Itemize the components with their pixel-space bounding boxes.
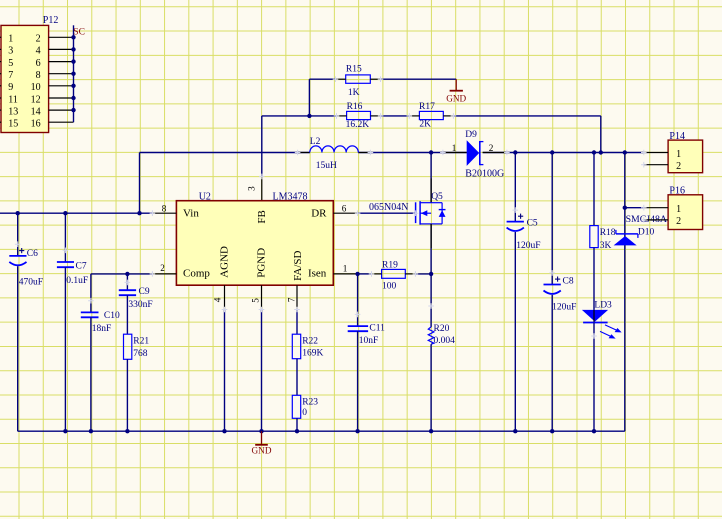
junction rail C5 [513,150,517,154]
pin U2 DR [311,204,357,220]
svg-text:8: 8 [162,204,167,214]
junction rail-C9 [125,429,129,433]
wire drain [430,153,432,203]
resistor R18 [590,226,598,248]
junction riser [137,211,141,215]
svg-text:GND: GND [252,446,272,456]
svg-text:100: 100 [382,281,397,291]
wire P16 pin1 [625,207,644,209]
value 330nF [128,300,152,310]
svg-text:12: 12 [31,94,41,105]
svg-text:C9: C9 [139,287,150,297]
wire C6 bottom [17,266,19,431]
wire FASD down [296,310,298,335]
wire FB column [261,116,263,176]
svg-text:15: 15 [8,119,18,130]
value 065N04N [369,202,408,213]
svg-text:0.1uF: 0.1uF [66,276,88,286]
capacitor C7 [57,262,74,267]
wire R23 bottom [296,418,298,431]
power GND top [446,79,466,103]
svg-text:R19: R19 [382,260,398,270]
junction C6 top [16,211,20,215]
junction rail-AGND [222,429,226,433]
label C5 [527,219,538,229]
wire D10 top [624,153,626,208]
svg-text:3: 3 [247,186,257,191]
wire C5 top [514,153,516,222]
wire C10 col top [90,274,92,313]
svg-text:13: 13 [8,106,18,117]
wire C5 bottom [514,232,516,431]
connector P12 [0,25,74,132]
label R22 [302,337,318,347]
svg-text:16.2K: 16.2K [346,120,370,130]
svg-text:18nF: 18nF [92,324,112,334]
pin number 7 [286,297,296,302]
svg-text:AGND: AGND [218,246,230,278]
hotspot crosses [15,76,647,338]
junction rail-C5 [513,429,517,433]
label LD3 [594,301,612,311]
wire PGND down [261,310,263,432]
value 0.004 [434,336,456,346]
value B20100G [465,168,504,179]
label D10 [638,228,655,238]
wire R22-R23 [296,359,298,396]
wire LD3 bottom [593,323,595,432]
svg-text:Comp: Comp [183,268,210,280]
wire L2 to D9 [358,152,467,154]
junction P12 pin6 [71,59,75,63]
junction Comp-C9 [125,272,129,276]
svg-text:2: 2 [676,216,681,227]
label R17 [419,102,435,112]
junction P12 pin14 [71,108,75,112]
wire R15 riser [308,79,310,116]
junction rail-LD3 [592,429,596,433]
designator U2 [199,192,211,203]
svg-text:C7: C7 [76,262,87,272]
svg-text:D10: D10 [638,228,655,238]
resistor R19 [372,269,416,278]
label C9 [139,287,150,297]
value 470uF [19,278,43,288]
svg-text:LM3478: LM3478 [273,192,308,203]
svg-text:330nF: 330nF [128,300,152,310]
svg-text:R17: R17 [419,102,435,112]
capacitor C6 [9,248,26,265]
svg-text:10: 10 [31,82,41,93]
wire rail to L2 [140,152,310,154]
wire R20 bottom [430,344,432,431]
svg-text:7: 7 [286,297,296,302]
value 2K [419,119,431,129]
connector P14 [644,140,703,173]
junction rail-C7 [63,429,67,433]
label R23 [302,398,318,408]
wire R16-R17 [381,115,410,117]
resistor R17 [409,111,453,119]
pin U2 FB [261,176,263,200]
designator P16 [669,185,685,196]
label C6 [27,249,38,259]
svg-text:R18: R18 [600,228,616,238]
svg-text:2: 2 [36,34,41,45]
svg-text:2: 2 [676,161,681,172]
pin U2 Isen [308,264,358,280]
junction rail R18 [592,150,596,154]
value 768 [133,349,148,359]
wire input rail [0,212,152,214]
wire C9 col top [126,274,128,290]
svg-text:R15: R15 [346,65,362,75]
svg-text:Vin: Vin [183,207,199,219]
pin U2 Vin [152,204,199,220]
label R20 [434,324,450,334]
pin number D9-1 [452,143,457,153]
diode D9 [467,140,484,166]
wire R19-source [415,273,431,275]
wire C6 top [17,213,19,256]
value C5 120uF [516,241,540,251]
label R15 [346,65,362,75]
label R18 [600,228,616,238]
pin U2 AGND [224,285,226,309]
wire R15 left [309,78,335,80]
svg-text:10nF: 10nF [359,336,379,346]
value 18nF [92,324,112,334]
led LD3 [582,310,620,338]
pin name AGND [218,246,230,278]
wire C10 col bottom [90,317,92,431]
value 169K [302,349,323,359]
value C8 120uF [552,303,576,313]
svg-text:14: 14 [31,106,41,117]
svg-text:6: 6 [36,58,41,69]
pin U2 Comp [152,263,210,280]
svg-text:R23: R23 [302,398,318,408]
svg-text:8: 8 [36,70,41,81]
svg-text:C5: C5 [527,219,538,229]
resistor R22 [292,334,300,359]
junction rail C8 [550,150,554,154]
svg-text:C10: C10 [104,311,120,321]
value 10nF [359,336,379,346]
pin number 5 [250,298,260,303]
label R16 [347,102,363,112]
wire Isen [358,273,372,275]
junction rail-R20 [429,429,433,433]
pin number 4 [213,297,223,302]
junction P12 pin2 [71,35,75,39]
resistor R23 [292,395,300,418]
svg-text:Q5: Q5 [431,192,443,202]
designator P12 [43,15,59,26]
svg-text:0: 0 [302,408,307,418]
svg-text:470uF: 470uF [19,278,43,288]
pin D9 anode [443,152,467,154]
value SMCJ48A [626,214,667,225]
svg-text:R21: R21 [133,337,149,347]
svg-text:6: 6 [342,204,347,214]
svg-text:L2: L2 [310,137,321,147]
pin L2 left [298,152,310,154]
junction rail-PGND [259,429,263,433]
wire R15 to GND [381,78,457,80]
capacitor C9 [119,290,136,295]
label R19 [382,260,398,270]
wire C11 top [357,274,359,326]
pin name FB [256,210,268,223]
wire AGND down [224,310,226,432]
label C7 [76,262,87,272]
wire C11 bottom [357,331,359,431]
junction P12 pin4 [71,47,75,51]
svg-text:120uF: 120uF [516,241,540,251]
wire R18-LD3 [593,248,595,310]
junction feedback [599,150,603,154]
junction rail-C10 [89,429,93,433]
value 0.1uF [66,276,88,286]
wire ground rail [18,430,625,432]
capacitor C11 [348,326,368,331]
svg-text:B20100G: B20100G [465,168,504,179]
power GND bottom [252,431,272,455]
pin D9 cathode [483,152,507,154]
svg-text:1: 1 [452,143,457,153]
label D9 [465,130,477,140]
resistor R21 [124,334,132,359]
transistor Q5 [416,201,446,225]
svg-text:768: 768 [133,349,148,359]
wire D10 mid [624,208,626,432]
svg-text:R16: R16 [347,102,363,112]
wire C7 top [64,213,66,262]
svg-text:7: 7 [8,70,13,81]
value 100 [382,281,397,291]
resistor R15 [336,75,381,83]
svg-text:2K: 2K [419,119,431,129]
svg-text:065N04N: 065N04N [369,202,408,213]
wire R20 top [430,274,432,327]
svg-text:C11: C11 [369,324,385,334]
net label SC [73,28,85,38]
svg-text:1K: 1K [348,88,360,98]
value 15uH [316,161,337,171]
svg-text:Isen: Isen [308,268,327,280]
value 1K [348,88,360,98]
junction C7 top [63,211,67,215]
pin name PGND [256,248,268,278]
pin U2 PGND [261,285,263,309]
svg-text:1: 1 [676,204,681,215]
svg-text:U2: U2 [199,192,211,203]
junction R15 riser [307,114,311,118]
junction rail-R23 [295,429,299,433]
label C10 [104,311,120,321]
resistor R16 [337,111,381,119]
wire riser to output row [139,153,141,214]
svg-text:FB: FB [256,210,268,223]
value 0 [302,408,307,418]
svg-text:169K: 169K [302,349,323,359]
svg-text:1: 1 [8,34,13,45]
capacitor C5 [507,214,524,231]
svg-text:GND: GND [446,93,466,103]
connector P16 [644,195,703,230]
pin L2 right [358,152,370,154]
junction P12 pin10 [71,84,75,88]
value 3K [600,241,612,251]
svg-text:DR: DR [311,207,327,219]
wire source [430,224,432,274]
svg-text:5: 5 [250,298,260,303]
wire C8 bottom [551,295,553,431]
wire Comp [91,273,152,275]
value 16.2K [346,120,370,130]
junction rail-C8 [550,429,554,433]
capacitor C10 [81,312,99,317]
wire C9-R21 [126,295,128,334]
svg-text:1: 1 [676,149,681,160]
pin number D9-2 [489,143,494,153]
svg-text:D9: D9 [465,130,477,140]
wire C7 bottom [64,267,66,431]
svg-text:11: 11 [8,94,18,105]
svg-text:R22: R22 [302,337,318,347]
svg-text:120uF: 120uF [552,303,576,313]
svg-text:FA/SD: FA/SD [292,250,304,280]
junction Isen [355,272,359,276]
svg-text:3: 3 [8,46,13,57]
svg-text:P14: P14 [669,131,685,142]
junction rail D10 [623,150,627,154]
wire net SC vertical [73,25,75,122]
svg-text:15uH: 15uH [316,161,337,171]
svg-text:C8: C8 [563,277,574,287]
svg-text:5: 5 [8,58,13,69]
wire R17 feedback [453,115,600,117]
designator P14 [669,131,685,142]
svg-text:9: 9 [8,82,13,93]
svg-text:2: 2 [160,263,165,273]
pin U2 FASD [296,285,298,309]
svg-text:1: 1 [343,264,348,274]
wire R18 top [593,153,595,226]
svg-text:LD3: LD3 [594,301,612,311]
wire feedback drop [600,116,602,153]
svg-text:0.004: 0.004 [434,336,456,346]
svg-text:16: 16 [31,119,41,130]
svg-text:C6: C6 [27,249,38,259]
svg-text:3K: 3K [600,241,612,251]
junction source-R19 [429,272,433,276]
label Q5 [431,192,443,202]
junction drain [429,150,433,154]
label C11 [369,324,385,334]
svg-text:P16: P16 [669,185,685,196]
pin number 3 [247,186,257,191]
label L2 [310,137,321,147]
wire R21 bottom [126,359,128,431]
wire C8 top [551,153,553,285]
label C8 [563,277,574,287]
svg-text:4: 4 [213,297,223,302]
junction P12 pin12 [71,96,75,100]
diode D10 [614,230,638,246]
pin name FASD [292,250,304,280]
svg-text:4: 4 [36,46,41,57]
svg-text:P12: P12 [43,15,59,26]
resistor R20 [428,327,434,344]
junction P16 tap [623,206,627,210]
svg-text:R20: R20 [434,324,450,334]
wire D9 to P14 [483,152,644,154]
inductor L2 [310,146,359,153]
svg-text:PGND: PGND [256,248,268,278]
label R21 [133,337,149,347]
junction P12 pin8 [71,72,75,76]
wire R16 row left [262,115,337,117]
svg-text:2: 2 [489,143,494,153]
wire DR to gate [358,212,416,214]
value LM3478 [273,192,308,203]
capacitor C8 [544,277,561,294]
junction rail-C11 [355,429,359,433]
ic U2 body [176,201,333,286]
